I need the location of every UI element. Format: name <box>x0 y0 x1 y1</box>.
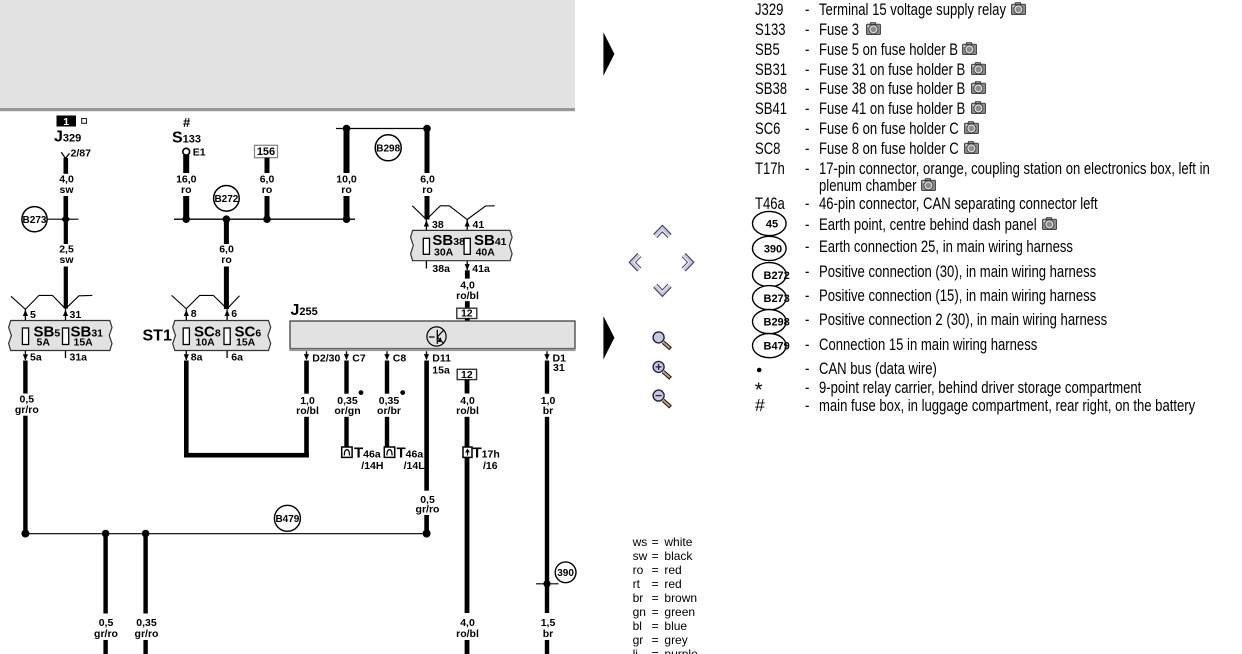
wire label 0,5 gr/ro <box>15 394 39 416</box>
fuse holder C box <box>173 321 271 351</box>
pin 2/87 entry chevron <box>61 152 69 158</box>
svg-text:J329: J329 <box>54 129 81 146</box>
wire 10,0 ro lower segment <box>344 196 350 219</box>
svg-text:31: 31 <box>70 309 82 321</box>
svg-text:ro: ro <box>422 184 433 196</box>
junction dot branch 2 <box>142 530 150 538</box>
svg-text:ST1: ST1 <box>143 328 172 345</box>
legend row B479 <box>805 336 809 353</box>
pin D1 arrow down <box>544 351 549 360</box>
wire 0,5 gr/ro down branch 1 <box>103 534 107 614</box>
magnifier icon plain <box>653 332 671 349</box>
svg-text:12: 12 <box>461 369 473 381</box>
junction dot top right <box>423 125 431 133</box>
wire 4,0 ro/bl segment below 12 <box>465 380 470 394</box>
relay J329 terminal box 1 <box>57 116 77 129</box>
connector T17h symbol <box>463 447 472 457</box>
fuse SB5 symbol <box>22 328 28 345</box>
svg-text:1: 1 <box>63 116 69 128</box>
svg-text:/16: /16 <box>483 460 498 472</box>
node B272 circle <box>214 186 240 212</box>
relay frame square <box>82 119 87 124</box>
label T17h /16 <box>473 445 500 472</box>
svg-text:31a: 31a <box>70 352 88 364</box>
camera icon row 3 <box>961 42 978 55</box>
legend row SB38 <box>755 80 787 97</box>
svg-text:ro/bl: ro/bl <box>456 628 479 640</box>
pin label 8a <box>191 352 203 364</box>
wire 4,0 ro/bl segment below 41a <box>465 270 470 278</box>
label SC8 10A <box>194 324 221 349</box>
wire 2,5 sw lower segment <box>64 267 68 309</box>
wire 0,5 gr/ro segment below 5a <box>23 361 27 394</box>
legend circle B272 <box>753 263 790 287</box>
wire 6,0 ro from 156 upper <box>265 158 270 173</box>
node B479 circle <box>274 505 300 531</box>
camera icon row 45 <box>1041 217 1058 230</box>
pin C8 arrow down <box>384 351 389 360</box>
pin label 38 <box>432 219 444 231</box>
pin label 6a <box>231 352 243 364</box>
pin label 41a <box>472 263 490 275</box>
wire label 4,0 ro/bl bottom <box>456 617 479 640</box>
pin 2/87 label <box>71 148 92 160</box>
wire 10,0 ro upper segment <box>344 129 350 174</box>
colour code br <box>633 592 644 604</box>
wire label 0,5 gr/ro branch1 <box>94 617 118 640</box>
svg-text:C8: C8 <box>393 352 407 364</box>
legend row B273 <box>805 287 809 304</box>
wire 6,0 ro segment below B272 <box>224 219 229 244</box>
current-track interrupt zigzag fuse holder C <box>172 295 240 308</box>
svg-text:40A: 40A <box>476 246 496 258</box>
pin 5 arrow up <box>23 310 28 316</box>
label S133 <box>172 130 201 147</box>
control unit J255 box <box>289 321 575 351</box>
wire 1,0 br long segment <box>545 417 549 613</box>
legend key star <box>755 379 763 401</box>
label J255 <box>291 302 318 319</box>
wire label 1,0 br <box>541 395 556 417</box>
pin 8 stem <box>185 310 187 361</box>
camera icon row 1 <box>1010 2 1027 15</box>
legend earth point circle 45 <box>753 211 787 235</box>
svg-text:gr/ro: gr/ro <box>15 404 39 416</box>
wire 2,5 sw upper segment <box>64 219 68 244</box>
label SB38 30A <box>432 232 465 258</box>
legend row SB41 <box>755 100 787 117</box>
pin C7 arrow down <box>344 351 349 360</box>
svg-text:390: 390 <box>557 568 574 579</box>
colour code rt <box>633 578 640 590</box>
svg-text:8: 8 <box>191 308 197 320</box>
pin label D1 31 <box>553 352 567 374</box>
page arrow middle <box>603 316 614 360</box>
svg-text:B479: B479 <box>275 514 299 525</box>
wire 4,0 sw upper segment <box>64 158 69 174</box>
wire stub 12 to J255 <box>465 319 470 322</box>
pin label 5a <box>30 352 42 364</box>
svg-text:5: 5 <box>30 309 36 321</box>
pin 38 arrow up <box>424 220 429 226</box>
pin 6 stem <box>226 310 228 359</box>
pin 6 arrow up <box>225 310 230 316</box>
svg-text:B273: B273 <box>764 293 790 305</box>
colour code gn <box>633 606 646 618</box>
pin 38 stem <box>425 220 427 269</box>
svg-text:15A: 15A <box>236 337 256 349</box>
colour code ws <box>633 536 648 548</box>
fuse SC8 symbol <box>183 328 189 345</box>
svg-text:41a: 41a <box>472 263 490 275</box>
legend circle B479 <box>753 334 790 358</box>
svg-text:6a: 6a <box>231 352 243 364</box>
wire 4,0 ro/bl middle segment <box>465 417 470 447</box>
legend key hash <box>755 395 765 415</box>
label SB41 40A <box>474 232 507 258</box>
junction dot B272 wire <box>223 215 231 223</box>
svg-text:/14H: /14H <box>361 460 383 472</box>
svg-text:38: 38 <box>432 219 444 231</box>
junction dot at 390 <box>543 580 550 587</box>
pin label 31 <box>70 309 82 321</box>
colour code li <box>633 648 638 654</box>
wire label 16,0 ro <box>176 174 197 196</box>
svg-text:D11: D11 <box>432 352 451 364</box>
legend row SB31 <box>755 61 787 78</box>
wire branch 1 bottom <box>103 640 107 654</box>
label SB31 15A <box>71 324 104 349</box>
legend row J329 <box>755 1 783 18</box>
connector T46a/14H symbol <box>342 447 352 457</box>
svg-text:#: # <box>183 115 191 130</box>
pin label 41 <box>473 219 485 231</box>
label SC6 15A <box>235 324 262 349</box>
nav chevron right <box>683 255 691 270</box>
current-track interrupt zigzag fuse holder B <box>11 295 92 309</box>
camera icon row 5 <box>970 81 987 94</box>
legend row B272 <box>805 263 809 280</box>
label J329 <box>54 129 81 146</box>
wire label 4,0 sw <box>59 174 74 196</box>
svg-text:sw: sw <box>59 184 74 196</box>
fuse SB38 symbol <box>423 238 429 254</box>
track marker 12 lower box <box>457 369 476 381</box>
svg-text:5A: 5A <box>37 337 51 349</box>
svg-text:2/87: 2/87 <box>71 148 92 160</box>
pin label 8 <box>191 308 197 320</box>
wire label 0,35 gr/ro branch2 <box>135 617 159 640</box>
svg-text:15A: 15A <box>74 337 94 349</box>
CAN bullet C7 <box>359 390 364 395</box>
wire 1,0 ro/bl lower segment <box>304 417 309 458</box>
pin label 38a <box>432 263 450 275</box>
svg-text:S133: S133 <box>172 130 201 147</box>
wire 0,5 gr/ro to earth bus <box>424 515 429 532</box>
fuse SC6 symbol <box>224 328 230 345</box>
svg-text:ro/bl: ro/bl <box>456 405 479 417</box>
fuse holder B box <box>9 321 112 351</box>
junction dot 16,0 at bus <box>182 215 190 223</box>
pin 31 arrow up <box>63 310 68 316</box>
B273 branch line <box>47 218 78 220</box>
wire 16,0 ro lower segment <box>183 196 189 219</box>
wire label 4,0 ro/bl (41a) <box>456 280 479 303</box>
wire 0,5 gr/ro segment below D11 <box>424 361 429 491</box>
wire label 6,0 ro (B272 branch) <box>219 244 234 266</box>
svg-text:E1: E1 <box>193 146 206 158</box>
legend key CAN bullet <box>757 368 762 373</box>
earth bus thin wire <box>25 533 427 535</box>
wire 16,0 ro upper segment <box>183 155 189 173</box>
svg-text:sw: sw <box>59 254 74 266</box>
label T46a /14L <box>397 445 426 472</box>
wire label 0,35 or/br <box>377 395 401 417</box>
svg-text:B298: B298 <box>376 144 400 155</box>
svg-text:B272: B272 <box>764 270 790 282</box>
wire 4,0 ro/bl bottom segment <box>465 640 470 654</box>
camera icon row 2 <box>865 22 882 35</box>
pin 31 stem <box>65 310 67 359</box>
earth branch line at 390 <box>536 583 559 585</box>
svg-text:8a: 8a <box>191 352 203 364</box>
svg-text:B479: B479 <box>764 341 790 353</box>
pin 5a arrow down <box>23 354 28 360</box>
label T46a /14H <box>354 445 383 472</box>
colour code gr <box>633 634 644 646</box>
legend row SC6 <box>755 120 780 137</box>
page arrow top <box>603 32 614 76</box>
wire 6,0 ro upper segment (to SB38) <box>425 129 430 174</box>
legend circle B298 <box>753 310 790 334</box>
fuse holder box SB38 SB41 <box>411 230 512 260</box>
camera icon row 7 <box>963 121 980 134</box>
svg-text:ro: ro <box>341 184 352 196</box>
camera icon row 6 <box>970 101 987 114</box>
wire label 2,5 sw <box>59 244 74 266</box>
legend row S133 <box>755 21 786 38</box>
terminal E1 circle <box>183 146 206 158</box>
wire label 0,35 or/gn <box>334 395 360 417</box>
camera icon row 4 <box>970 62 987 75</box>
svg-text:156: 156 <box>257 146 275 158</box>
junction dot bottom left <box>21 530 29 538</box>
pin 8 arrow up <box>184 310 189 316</box>
wire elbow 8a to D2/30 vertical <box>184 361 189 458</box>
pin label D11 15a <box>432 352 451 376</box>
junction dot top left <box>343 125 351 133</box>
legend row earth point 45 <box>805 216 809 233</box>
wire label 10,0 ro <box>336 174 357 196</box>
wire 0,35 or/gn segment below C7 <box>344 361 348 394</box>
svg-text:15a: 15a <box>432 365 450 377</box>
legend row main fuse box <box>805 397 809 414</box>
svg-text:gr/ro: gr/ro <box>94 628 118 640</box>
wire 4,0 sw lower segment <box>64 196 69 218</box>
pin 8a arrow down <box>184 354 189 360</box>
svg-text:390: 390 <box>764 244 782 256</box>
legend row CAN bus <box>805 360 809 377</box>
svg-text:br: br <box>543 628 554 640</box>
node B273 circle <box>22 207 47 232</box>
junction at B273 <box>61 215 70 224</box>
wire label 1,5 br bottom <box>541 617 556 640</box>
svg-text:ro: ro <box>181 184 192 196</box>
svg-text:br: br <box>543 405 554 417</box>
legend row T17h <box>755 160 785 177</box>
previous current-track area (grey band) <box>0 0 575 111</box>
svg-text:gr/ro: gr/ro <box>416 504 440 516</box>
wire 4,0 ro/bl stub above 12 box <box>465 301 470 308</box>
colour code sw <box>633 550 648 562</box>
wire label 6,0 ro (156) <box>260 174 275 196</box>
legend row SC8 <box>755 140 780 157</box>
colour code bl <box>633 620 642 632</box>
label ST1 <box>143 328 172 345</box>
wire label 0,5 gr/ro (D11) <box>416 494 440 515</box>
wire 1,5 br bottom segment <box>545 640 549 654</box>
wire label 6,0 ro (SB38 branch) <box>420 174 435 196</box>
node B298 circle <box>375 135 401 161</box>
svg-text:10A: 10A <box>196 337 216 349</box>
fuse S133 hash mark <box>183 115 191 130</box>
J255 K symbol <box>427 327 446 346</box>
fuse SB31 symbol <box>63 328 69 345</box>
svg-text:ro/bl: ro/bl <box>456 290 479 302</box>
svg-text:or/gn: or/gn <box>334 405 360 417</box>
wire 1,0 br segment below D1 <box>545 361 549 394</box>
wire 0,35 gr/ro down branch 2 <box>143 534 147 614</box>
pin D2/30 arrow down <box>304 351 309 360</box>
svg-text:30A: 30A <box>434 246 454 258</box>
wire 6,0 ro lower segment to pin 6 <box>224 267 229 310</box>
pin 41a arrow down <box>465 264 470 270</box>
camera icon row T17h <box>920 178 937 191</box>
magnifier icon zoom out <box>653 390 671 407</box>
wire elbow horizontal <box>184 453 309 458</box>
svg-text:6: 6 <box>231 308 237 320</box>
svg-text:B298: B298 <box>764 317 790 329</box>
wire 0,35 or/br lower segment <box>385 417 389 447</box>
pin label D2/30 <box>312 352 340 364</box>
nav chevron up <box>655 229 669 238</box>
pin D11 arrow down <box>424 351 429 360</box>
label SB5 5A <box>34 324 61 349</box>
wire label 1,0 ro/bl <box>296 395 319 417</box>
earth node 390 circle <box>555 562 576 583</box>
legend row earth connection 390 <box>805 238 809 255</box>
terminal 156 box <box>255 145 278 158</box>
legend circle B273 <box>753 286 790 310</box>
wire label 4,0 ro/bl (T17h) <box>456 395 479 417</box>
pin 41 arrow up <box>465 220 470 226</box>
pin label 5 <box>30 309 36 321</box>
svg-text:B273: B273 <box>23 215 47 226</box>
wire 4,0 ro/bl long segment <box>465 457 470 613</box>
CAN bullet C8 <box>400 390 405 395</box>
wire 0,5 gr/ro long segment <box>23 416 27 534</box>
junction dot branch 1 <box>102 530 110 538</box>
legend row T46a <box>755 195 785 212</box>
junction dot 10,0 at bus <box>343 215 351 223</box>
pin 41 stem <box>466 220 468 270</box>
legend row B298 <box>805 311 809 328</box>
junction dot 156 wire at bus <box>263 215 271 223</box>
nav chevron down <box>655 285 669 294</box>
track marker 12 upper box <box>457 308 477 320</box>
svg-text:ro: ro <box>262 184 273 196</box>
connector T46a/14L symbol <box>384 447 394 457</box>
svg-text:gr/ro: gr/ro <box>135 628 159 640</box>
svg-text:B272: B272 <box>214 194 238 205</box>
junction dot D11 at earth bus <box>423 530 431 538</box>
wire branch 2 bottom <box>143 640 147 654</box>
fuse SB41 symbol <box>464 238 470 254</box>
svg-text:ro: ro <box>221 254 232 266</box>
camera icon row 8 <box>963 141 980 154</box>
svg-text:J255: J255 <box>291 302 318 319</box>
svg-text:41: 41 <box>473 219 485 231</box>
pin label C7 <box>352 352 366 364</box>
positive supply bus line <box>174 218 355 220</box>
pin label 6 <box>231 308 237 320</box>
svg-text:38a: 38a <box>432 263 450 275</box>
pin label 31a <box>70 352 88 364</box>
wire 0,35 or/gn lower segment <box>344 417 348 447</box>
svg-text:or/br: or/br <box>377 405 401 417</box>
svg-text:C7: C7 <box>352 352 366 364</box>
pin 5 stem <box>24 310 26 361</box>
svg-text:#: # <box>755 395 765 415</box>
pin label C8 <box>393 352 407 364</box>
legend earth connection circle 390 <box>753 236 787 260</box>
colour code ro <box>633 564 644 576</box>
magnifier icon zoom in <box>653 361 671 378</box>
nav chevron left <box>632 255 640 270</box>
svg-text:ro/bl: ro/bl <box>296 405 319 417</box>
wire 0,35 or/br segment below C8 <box>385 361 389 394</box>
svg-text:31: 31 <box>553 362 565 374</box>
svg-text:12: 12 <box>461 308 473 320</box>
legend row SB5 <box>755 41 780 58</box>
wire 6,0 ro lower segment to pin 38 <box>425 196 430 220</box>
top link line B298 <box>336 128 428 130</box>
legend row T17h line 2 <box>819 177 917 194</box>
svg-text:5a: 5a <box>30 352 42 364</box>
wire 1,0 ro/bl segment below D2/30 <box>304 361 309 394</box>
svg-text:45: 45 <box>766 219 778 231</box>
wire 6,0 ro from 156 lower <box>265 196 270 219</box>
legend row relay carrier <box>805 379 809 396</box>
svg-text:/14L: /14L <box>404 460 426 472</box>
svg-text:D2/30: D2/30 <box>312 352 340 364</box>
current-track interrupt zigzag fuse holder B 38/41 <box>412 206 494 220</box>
